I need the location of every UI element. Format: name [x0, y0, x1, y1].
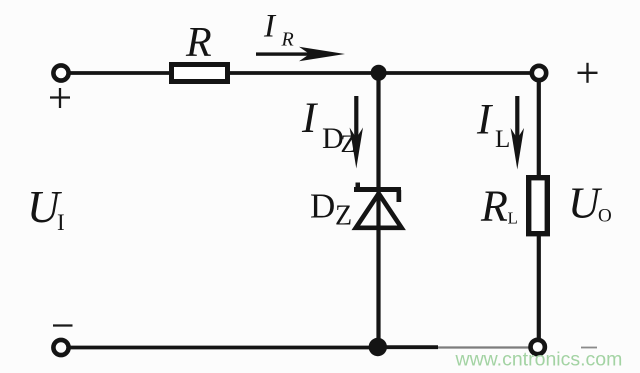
current arrow I_DZ	[350, 96, 363, 169]
plus sign input	[50, 88, 70, 108]
svg-text:I: I	[476, 97, 493, 144]
zener diode DZ cathode bar	[354, 183, 401, 203]
svg-text:R: R	[281, 29, 294, 51]
wire bottom rail gray segment	[438, 346, 529, 348]
svg-text:I: I	[263, 9, 277, 45]
minus sign input	[53, 324, 73, 326]
wire bottom rail left segment	[70, 346, 378, 350]
terminal output - (bottom-right)	[531, 340, 545, 354]
svg-text:Z: Z	[335, 201, 352, 232]
svg-text:L: L	[508, 209, 518, 228]
current arrow I_L	[511, 96, 524, 170]
terminal output + (top-right)	[532, 66, 546, 80]
wire top rail right segment	[378, 71, 531, 75]
svg-text:R: R	[480, 182, 508, 231]
svg-text:O: O	[598, 206, 612, 227]
svg-text:D: D	[310, 187, 335, 226]
terminal input - (bottom-left)	[53, 340, 68, 355]
wire bottom rail black stub right of node B	[378, 345, 438, 349]
zener diode DZ triangle	[356, 194, 402, 228]
svg-text:I: I	[57, 210, 65, 235]
node B (bottom junction)	[369, 338, 387, 356]
svg-text:L: L	[495, 126, 510, 153]
node A (top junction)	[371, 65, 387, 81]
resistor R	[172, 65, 228, 82]
wire top rail middle segment	[228, 71, 378, 75]
terminal input + (top-left)	[53, 65, 68, 80]
svg-text:www.cntronics.com: www.cntronics.com	[455, 349, 623, 371]
plus sign output	[578, 63, 598, 83]
wire zener branch vertical	[376, 73, 380, 347]
wire top rail left segment	[70, 71, 171, 75]
current arrow I_R	[256, 47, 345, 61]
svg-text:I: I	[301, 95, 318, 142]
wire load branch vertical	[537, 81, 541, 347]
svg-text:R: R	[185, 20, 212, 66]
resistor RL	[529, 178, 548, 234]
minus sign output	[581, 347, 597, 349]
